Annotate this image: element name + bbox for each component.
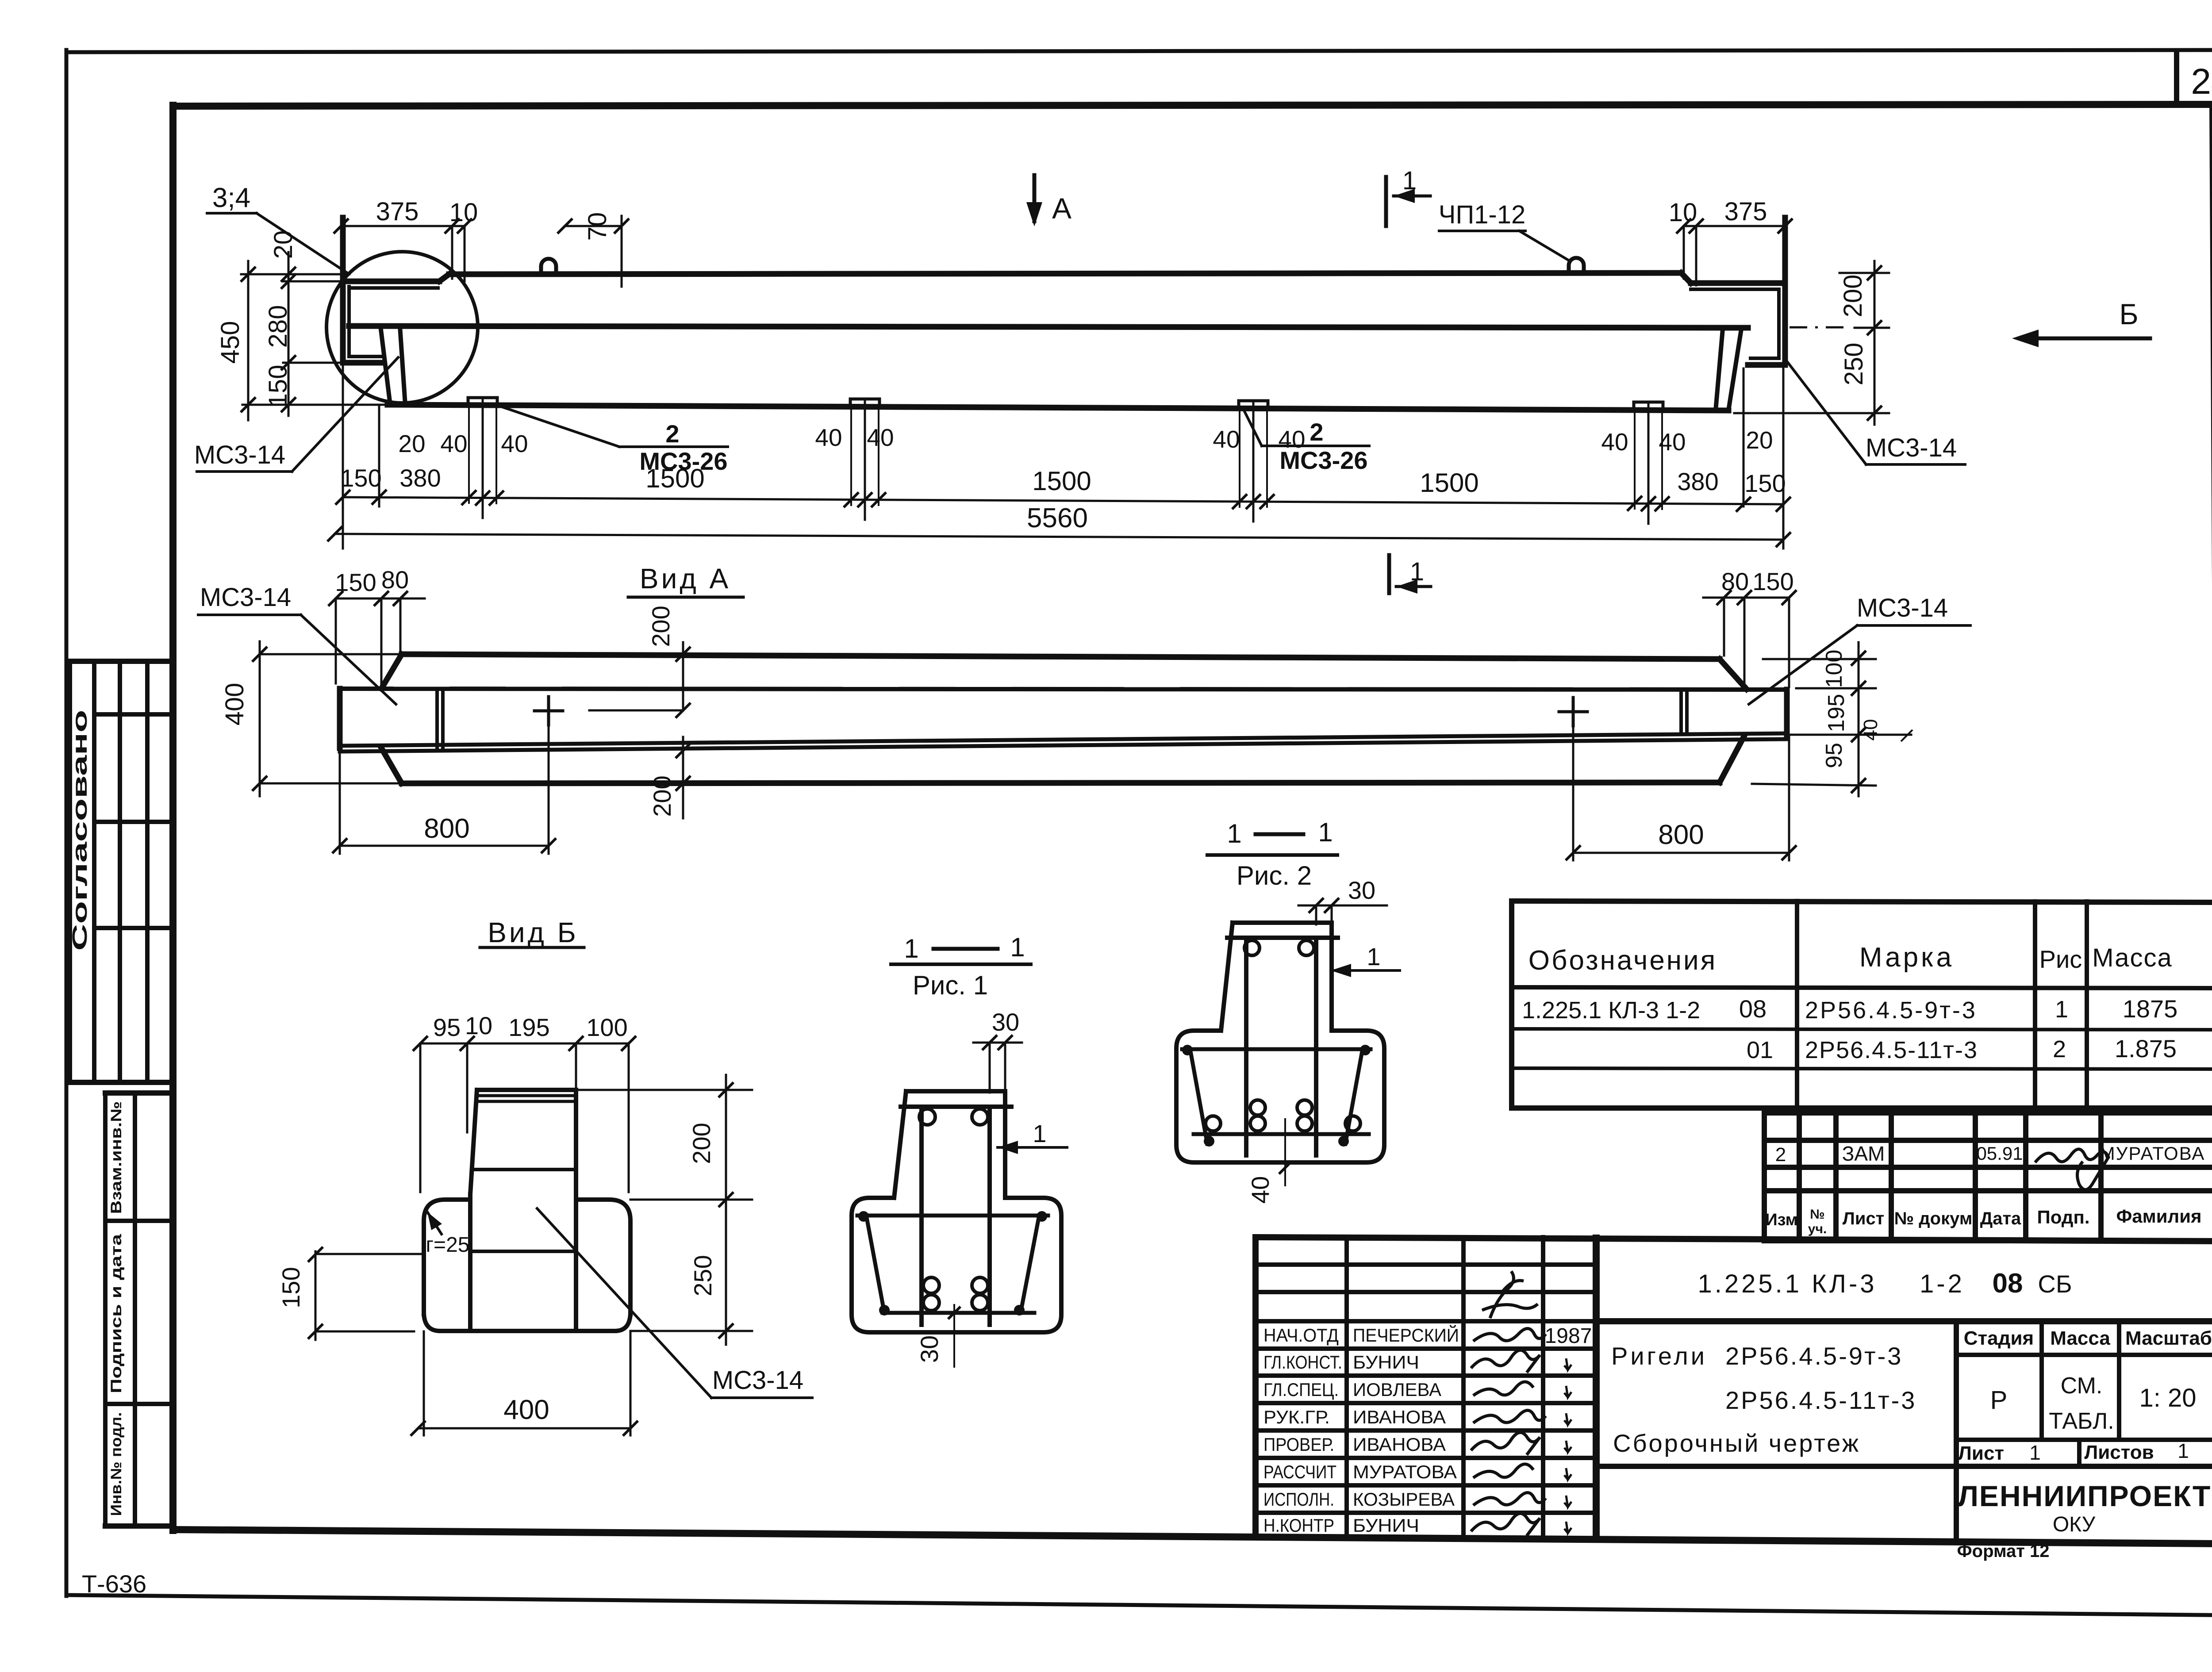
signature row 7 [1473, 1492, 1546, 1505]
view A: left end face [337, 689, 343, 748]
svg-text:уч.: уч. [1808, 1222, 1827, 1236]
svg-text:1500: 1500 [645, 464, 704, 493]
svg-text:2Р56.4.5-9т-3: 2Р56.4.5-9т-3 [1805, 997, 1977, 1024]
view A: left flare diagonals [381, 654, 402, 689]
svg-text:80: 80 [1721, 568, 1749, 595]
view A right side dims 100/195/95/40 [1858, 642, 1860, 796]
section Ris.1 bottom rebar circles [923, 1277, 939, 1293]
section Ris.2 bottom bar [1194, 1132, 1369, 1136]
svg-text:ИСПОЛН.: ИСПОЛН. [1263, 1489, 1334, 1510]
svg-text:100: 100 [1821, 650, 1847, 688]
section mark 1 (elevation) [1384, 177, 1388, 226]
big signature over top rows [1482, 1271, 1538, 1318]
elevation: right end face [1782, 218, 1788, 365]
svg-text:08: 08 [1993, 1268, 2023, 1299]
svg-text:80: 80 [381, 566, 409, 594]
view A: central top line [340, 689, 1787, 690]
dim 5560 [335, 534, 1783, 540]
view B top dims 95/10/195/100 [420, 1043, 629, 1045]
svg-text:1: 1 [2029, 1441, 2041, 1464]
svg-text:2Р56.4.5-11т-3: 2Р56.4.5-11т-3 [1725, 1386, 1916, 1414]
svg-text:Марка: Марка [1859, 942, 1954, 973]
svg-text:200: 200 [648, 775, 676, 817]
elevation extension lines left [241, 273, 349, 276]
view B dim 150 left [315, 1251, 317, 1340]
svg-text:Б: Б [2119, 298, 2138, 330]
section mark 1 (view A) [1387, 555, 1391, 593]
svg-text:2: 2 [1775, 1144, 1786, 1166]
section Ris.2 shelf top bar [1182, 1047, 1371, 1051]
svg-text:1: 1 [1010, 932, 1025, 962]
svg-text:ГЛ.СПЕЦ.: ГЛ.СПЕЦ. [1263, 1379, 1339, 1400]
svg-text:40: 40 [1246, 1176, 1274, 1204]
signature row 5 [1471, 1432, 1540, 1455]
svg-text:2Р56.4.5-11т-3: 2Р56.4.5-11т-3 [1805, 1037, 1978, 1063]
elevation: right shelf bottom [1748, 362, 1785, 368]
view A dim 150/80 left [336, 598, 425, 600]
svg-text:1: 1 [1227, 819, 1241, 848]
view A: right end face [1784, 690, 1790, 737]
svg-text:МС3-14: МС3-14 [194, 441, 285, 469]
svg-text:40: 40 [1213, 426, 1240, 453]
svg-text:1: 1 [1318, 817, 1333, 847]
dim 375/10 left [341, 225, 465, 227]
view arrow A [1033, 175, 1037, 221]
svg-text:МУРАТОВА: МУРАТОВА [1353, 1461, 1457, 1482]
svg-text:1: 1 [1402, 166, 1417, 195]
section Ris.2 vertical bars [1244, 938, 1248, 1155]
svg-text:1: 1 [2177, 1439, 2189, 1462]
svg-text:20: 20 [269, 230, 298, 259]
svg-text:40: 40 [501, 430, 528, 457]
detail circle 3;4 [326, 252, 478, 403]
view A: plate center cross left [534, 709, 563, 713]
svg-text:1: 1 [1410, 557, 1424, 586]
designations table grid [1512, 901, 2212, 902]
svg-text:30: 30 [1348, 876, 1375, 904]
svg-text:ЧП1-12: ЧП1-12 [1439, 200, 1525, 229]
svg-text:150: 150 [277, 1267, 305, 1308]
signature row 3 [1473, 1382, 1533, 1396]
svg-text:ГЛ.КОНСТ.: ГЛ.КОНСТ. [1263, 1352, 1342, 1373]
svg-text:380: 380 [399, 464, 441, 492]
svg-text:МУРАТОВА: МУРАТОВА [2100, 1143, 2205, 1164]
section Ris.1 stirrup slants [867, 1220, 884, 1313]
svg-text:№ докум: № докум [1894, 1209, 1973, 1228]
section Ris.2 callout 1 [1331, 969, 1400, 972]
svg-text:250: 250 [689, 1255, 717, 1296]
svg-text:95: 95 [1821, 743, 1847, 768]
section Ris.2 outline [1233, 920, 1332, 925]
elevation: right end step [1681, 273, 1691, 283]
svg-text:МС3-14: МС3-14 [200, 583, 291, 612]
lifting loop ChP1-12 #2 [1569, 258, 1584, 273]
svg-text:195: 195 [1824, 694, 1849, 732]
svg-text:МС3-14: МС3-14 [1866, 433, 1957, 462]
svg-text:Вид Б: Вид Б [488, 917, 579, 948]
view arrow B [2020, 337, 2150, 341]
elevation: right web cut edges [1716, 329, 1723, 410]
svg-text:Взам.инв.№: Взам.инв.№ [108, 1101, 125, 1214]
svg-text:250: 250 [1839, 343, 1868, 386]
section Ris.1 outline [906, 1089, 1005, 1093]
svg-text:30: 30 [992, 1008, 1019, 1036]
section Ris.1 callout 1 [998, 1146, 1067, 1149]
svg-text:150: 150 [340, 464, 381, 492]
elevation: right embedded plate MS3-14 lines [1777, 289, 1781, 358]
section Ris.1 vertical bars [919, 1107, 924, 1325]
revision table grid [1762, 1113, 1767, 1241]
svg-text:1: 1 [1367, 943, 1380, 970]
svg-text:Дата: Дата [1980, 1209, 2021, 1228]
svg-text:А: А [1052, 192, 1071, 225]
svg-text:1: 1 [904, 934, 918, 963]
view A: left plate MS3-14 edge [435, 689, 439, 747]
svg-text:ИОВЛЕВА: ИОВЛЕВА [1353, 1379, 1441, 1400]
svg-text:Сборочный чертеж: Сборочный чертеж [1613, 1429, 1860, 1457]
view B dim 400 [418, 1427, 630, 1430]
svg-text:375: 375 [1724, 197, 1767, 226]
svg-text:100: 100 [586, 1013, 627, 1041]
svg-text:40: 40 [867, 424, 894, 451]
svg-text:Рис: Рис [2039, 945, 2082, 973]
svg-text:2: 2 [2053, 1036, 2066, 1062]
view B inner shelf lines [472, 1168, 576, 1171]
callout 2 MS3-26 #2 [1244, 410, 1262, 446]
svg-text:450: 450 [216, 321, 245, 364]
signature row 2 [1471, 1350, 1540, 1373]
view A dim 200 upper [589, 709, 683, 712]
svg-text:1: 20: 1: 20 [2139, 1384, 2197, 1412]
section Ris.2 corner bar dots [1182, 1045, 1193, 1055]
embedded plate MS3-26 #3 [1239, 401, 1268, 408]
svg-text:200: 200 [647, 606, 675, 647]
svg-text:Подпись и дата: Подпись и дата [108, 1234, 125, 1393]
svg-text:40: 40 [440, 430, 467, 457]
svg-text:СБ: СБ [2038, 1270, 2072, 1298]
view A: right flare diagonals [1720, 659, 1747, 689]
elevation: left shelf bottom [343, 360, 381, 366]
svg-text:Согласовано: Согласовано [68, 710, 91, 951]
view A: outer bottom edge [402, 782, 1720, 783]
svg-text:г=25: г=25 [426, 1233, 470, 1257]
stamp Vzam.inv grid [103, 1093, 108, 1526]
svg-text:20: 20 [398, 430, 425, 457]
section Ris.2 stirrup slants [1191, 1054, 1207, 1144]
svg-text:МС3-26: МС3-26 [1279, 446, 1367, 474]
svg-text:150: 150 [1752, 568, 1793, 595]
svg-text:95: 95 [433, 1013, 461, 1041]
svg-text:150: 150 [335, 568, 376, 596]
elevation: shelf mid line [349, 326, 1748, 328]
elevation: left end face [340, 218, 346, 363]
svg-text:1875: 1875 [2123, 995, 2178, 1023]
dim 375/10 right [1684, 225, 1787, 227]
section Ris.1 corner bar dots [858, 1211, 869, 1222]
elevation: left end step top [343, 279, 439, 284]
view B dim 200/250 right [725, 1075, 727, 1345]
svg-text:195: 195 [508, 1013, 549, 1041]
svg-text:1.225.1 КЛ-3 1-2: 1.225.1 КЛ-3 1-2 [1522, 997, 1700, 1024]
svg-text:10: 10 [1669, 198, 1697, 227]
svg-text:ЗАМ: ЗАМ [1842, 1142, 1885, 1165]
svg-text:200: 200 [1839, 275, 1867, 318]
svg-text:Подп.: Подп. [2037, 1207, 2090, 1227]
svg-text:НАЧ.ОТД: НАЧ.ОТД [1263, 1325, 1339, 1346]
extension lines to bottom dim [342, 363, 344, 548]
svg-text:375: 375 [376, 197, 419, 226]
svg-text:ТАБЛ.: ТАБЛ. [2049, 1408, 2114, 1434]
svg-text:400: 400 [220, 683, 249, 726]
svg-text:200: 200 [687, 1123, 715, 1164]
view A: right plate MS3-14 edge [1679, 690, 1683, 734]
section Ris.2 top rebar [1227, 936, 1338, 940]
view A: central bottom double line [340, 733, 1787, 746]
stamp Soglasovano grid [68, 661, 72, 1082]
view A dim 400 left [259, 641, 261, 796]
revision signature squiggle [2035, 1149, 2108, 1190]
svg-text:Н.КОНТР: Н.КОНТР [1263, 1515, 1334, 1536]
svg-text:400: 400 [503, 1395, 549, 1425]
view A dim 800 right [1573, 852, 1789, 854]
svg-text:РУК.ГР.: РУК.ГР. [1263, 1407, 1330, 1427]
svg-text:Т-636: Т-636 [82, 1570, 146, 1598]
svg-text:01: 01 [1747, 1037, 1773, 1063]
svg-text:№: № [1810, 1207, 1824, 1222]
svg-text:150: 150 [264, 365, 292, 408]
svg-text:70: 70 [583, 212, 612, 241]
svg-text:Формат 12: Формат 12 [1957, 1542, 2050, 1561]
svg-text:Стадия: Стадия [1964, 1327, 2034, 1349]
title block big divider lines [1596, 1318, 2212, 1324]
svg-text:Обозначения: Обозначения [1528, 945, 1717, 976]
svg-text:ПРОВЕР.: ПРОВЕР. [1263, 1434, 1334, 1455]
svg-text:КОЗЫРЕВА: КОЗЫРЕВА [1353, 1489, 1455, 1510]
section Ris.1 shelf top bar [857, 1214, 1048, 1218]
svg-text:Фамилия: Фамилия [2116, 1206, 2201, 1227]
svg-text:150: 150 [1744, 469, 1786, 497]
svg-text:Р: Р [1990, 1386, 2008, 1415]
embedded plate MS3-26 #2 [850, 399, 879, 406]
svg-text:3;4: 3;4 [212, 183, 250, 213]
svg-text:280: 280 [264, 305, 292, 348]
svg-text:Листов: Листов [2084, 1442, 2154, 1463]
elevation: left embedded plate MS3-14 lines [347, 287, 351, 357]
dim 450 [247, 261, 250, 420]
section Ris.1 dim 30 bottom [953, 1305, 955, 1367]
svg-text:1: 1 [1033, 1120, 1046, 1147]
svg-text:2: 2 [665, 420, 679, 448]
dim 70 [565, 225, 622, 227]
svg-text:1-2: 1-2 [1920, 1269, 1965, 1298]
svg-text:ИВАНОВА: ИВАНОВА [1353, 1407, 1446, 1427]
elevation: left web cut edges [380, 326, 390, 405]
svg-text:380: 380 [1677, 468, 1718, 495]
svg-text:40: 40 [1659, 428, 1686, 456]
svg-text:СМ.: СМ. [2061, 1373, 2103, 1399]
svg-text:1.875: 1.875 [2115, 1035, 2177, 1062]
svg-text:30: 30 [915, 1335, 943, 1363]
svg-text:1.225.1 КЛ-3: 1.225.1 КЛ-3 [1697, 1269, 1877, 1298]
svg-text:2Р56.4.5-9т-3: 2Р56.4.5-9т-3 [1725, 1342, 1903, 1370]
view A: plate center cross right [1559, 710, 1587, 713]
dim 200/250 right [1874, 261, 1876, 425]
svg-text:Рис. 2: Рис. 2 [1237, 861, 1312, 890]
view A dim 80/150 right [1703, 597, 1789, 599]
svg-text:Ригели: Ригели [1611, 1342, 1707, 1370]
svg-text:РАССЧИТ: РАССЧИТ [1263, 1461, 1336, 1482]
svg-text:08: 08 [1739, 995, 1767, 1023]
title block outer and names grid [1256, 1237, 2212, 1241]
svg-text:24: 24 [2191, 61, 2212, 102]
dim 20/280/150 left [288, 252, 290, 416]
svg-text:Вид А: Вид А [640, 563, 731, 594]
svg-text:МС3-14: МС3-14 [1857, 594, 1948, 622]
svg-text:БУНИЧ: БУНИЧ [1353, 1515, 1419, 1536]
svg-text:1987: 1987 [1545, 1324, 1592, 1348]
lifting loop ChP1-12 #1 [541, 259, 556, 274]
svg-text:Лист: Лист [1958, 1442, 2004, 1464]
svg-text:ИВАНОВА: ИВАНОВА [1353, 1434, 1446, 1455]
embedded plate MS3-26 #4 [1634, 402, 1663, 410]
signature row 6 [1473, 1464, 1533, 1478]
svg-text:Изм: Изм [1765, 1211, 1797, 1229]
bottom dim line elevation [343, 497, 1783, 504]
view B column outline [477, 1088, 576, 1092]
svg-text:Лист: Лист [1843, 1209, 1885, 1228]
svg-text:5560: 5560 [1027, 503, 1088, 533]
svg-text:Масса: Масса [2092, 943, 2172, 972]
svg-text:40: 40 [815, 424, 842, 451]
elevation: beam bottom edge [388, 405, 1728, 410]
view B pedestal outline [424, 1200, 630, 1331]
svg-text:1500: 1500 [1420, 468, 1479, 498]
svg-text:МС3-14: МС3-14 [712, 1366, 803, 1395]
signature row 4 [1473, 1410, 1546, 1423]
section Ris.2 bottom rebar circles [1250, 1100, 1265, 1115]
view A: outer top edge [402, 654, 1720, 659]
elevation: center dash line right end [1790, 326, 1851, 329]
svg-text:1: 1 [2055, 996, 2068, 1023]
svg-text:Инв.№ подл.: Инв.№ подл. [108, 1412, 125, 1516]
svg-text:05.91: 05.91 [1976, 1143, 2023, 1164]
svg-text:20: 20 [1746, 426, 1773, 454]
elevation: beam top edge [449, 273, 1681, 274]
svg-text:Масса: Масса [2050, 1327, 2110, 1349]
svg-text:ОКУ: ОКУ [2053, 1513, 2096, 1536]
svg-text:10: 10 [449, 198, 478, 227]
callout 2 MS3-26 #1 [502, 407, 619, 447]
view A dim 200 lower [682, 737, 684, 818]
svg-text:Масштаб: Масштаб [2125, 1327, 2212, 1349]
section Ris.1 top rebar [901, 1104, 1011, 1109]
svg-text:40: 40 [1601, 428, 1628, 456]
section Ris.1 bottom bar [883, 1311, 1034, 1315]
svg-text:ЛЕННИИПРОЕКТ: ЛЕННИИПРОЕКТ [1958, 1480, 2212, 1512]
svg-text:10: 10 [465, 1012, 492, 1039]
section Ris.2 dim 40 [1284, 1119, 1286, 1185]
svg-text:2: 2 [1310, 418, 1323, 446]
svg-text:40: 40 [1860, 719, 1882, 741]
svg-text:1500: 1500 [1032, 466, 1091, 496]
signature row 1 [1473, 1328, 1546, 1341]
view A dim 800 left [340, 845, 549, 847]
svg-text:Рис. 1: Рис. 1 [913, 970, 988, 1000]
svg-text:800: 800 [424, 813, 469, 844]
view B pedestal bottom line [440, 1329, 615, 1333]
sheet number box 24 [2174, 51, 2179, 105]
svg-text:ПЕЧЕРСКИЙ: ПЕЧЕРСКИЙ [1353, 1324, 1459, 1346]
svg-text:БУНИЧ: БУНИЧ [1353, 1352, 1419, 1373]
embedded plate MS3-26 #1 [468, 398, 497, 405]
signature row 8 [1471, 1513, 1540, 1536]
svg-text:800: 800 [1658, 820, 1704, 850]
